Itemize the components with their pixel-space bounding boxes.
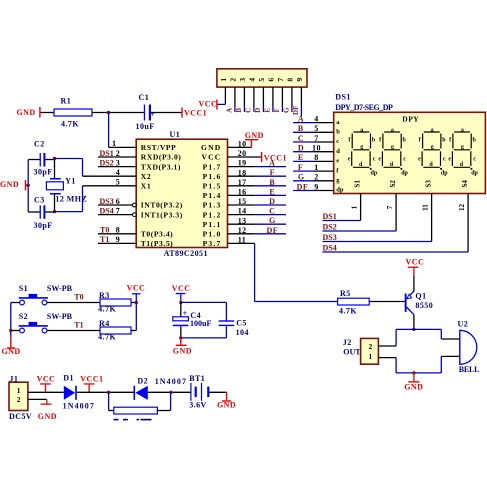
svg-text:T1: T1 (74, 321, 83, 330)
svg-text:5: 5 (257, 78, 266, 82)
node B / display pin 5 (293, 131, 314, 133)
svg-text:A: A (298, 114, 304, 123)
svg-text:Q1: Q1 (415, 291, 426, 300)
svg-text:C3: C3 (34, 196, 45, 205)
svg-text:+: + (150, 110, 155, 119)
seven-segment digit 4 (448, 127, 478, 176)
pin 1 wire (224, 87, 226, 104)
svg-text:1: 1 (219, 78, 228, 82)
svg-text:SW-PB: SW-PB (47, 312, 73, 321)
svg-text:30pF: 30pF (34, 168, 53, 177)
svg-text:P1.5: P1.5 (203, 182, 222, 191)
wire (J2 pin2) (378, 345, 396, 347)
wire (bell +) (441, 338, 460, 340)
svg-text:RXD(P3.0): RXD(P3.0) (141, 153, 182, 162)
node DS3 wire (323, 241, 432, 243)
junction (9, 329, 12, 332)
svg-text:7: 7 (314, 134, 318, 143)
switch S1 SW-PB (19, 284, 73, 305)
node DS4 wire (323, 251, 469, 253)
svg-text:T0(P3.4): T0(P3.4) (141, 230, 173, 239)
pin 4 wire / node C (253, 87, 255, 106)
svg-text:8: 8 (285, 78, 294, 82)
svg-text:e: e (336, 158, 339, 165)
svg-text:P1.2: P1.2 (203, 210, 222, 219)
svg-text:P1.6: P1.6 (203, 172, 222, 181)
junction (412, 371, 415, 374)
seven-segment digit 1 (348, 127, 378, 176)
svg-text:8550: 8550 (415, 301, 433, 310)
svg-text:Y1: Y1 (65, 177, 76, 186)
svg-text:E: E (298, 153, 304, 162)
svg-text:D1: D1 (63, 373, 74, 382)
wire to R5 (254, 243, 256, 301)
connector (9-pin header) body (217, 69, 307, 87)
svg-text:DPY: DPY (402, 114, 419, 123)
wire (10, 303, 12, 338)
diode D2 1N4007 (134, 386, 136, 400)
resistor (charge limit, parallel with D2) (108, 392, 110, 410)
svg-text:12: 12 (458, 204, 466, 212)
junction (169, 391, 172, 394)
capacitor C4 (electrolytic) (180, 302, 182, 316)
svg-text:X2: X2 (141, 172, 151, 181)
pin 9 wire / node DF (300, 87, 302, 106)
svg-text:A: A (269, 159, 275, 168)
node B (U1 P1.5) (228, 185, 256, 187)
svg-text:4.7K: 4.7K (98, 333, 116, 342)
node F (U1 P1.6) (228, 175, 256, 177)
pin 8 wire / node G (291, 87, 293, 106)
power port GND (bell) (413, 373, 415, 381)
svg-text:DS3: DS3 (100, 197, 114, 206)
svg-text:4: 4 (116, 168, 120, 177)
svg-text:10uF: 10uF (136, 122, 155, 131)
svg-text:F: F (298, 163, 303, 172)
svg-text:10: 10 (312, 144, 321, 153)
bell U2 (458, 320, 480, 374)
svg-text:DF: DF (267, 226, 279, 235)
junction (53, 210, 56, 213)
power port VCC (connector) (216, 100, 217, 110)
svg-text:VCC: VCC (199, 100, 218, 109)
svg-text:C: C (298, 134, 304, 143)
wire (395, 329, 397, 346)
capacitor C2 (28, 159, 40, 161)
svg-text:D: D (254, 108, 262, 113)
svg-text:c: c (473, 156, 476, 162)
wire (148, 391, 191, 393)
svg-text:c: c (336, 138, 339, 145)
svg-text:C5: C5 (236, 318, 247, 327)
svg-text:S4: S4 (461, 180, 469, 188)
junction (107, 391, 110, 394)
svg-text:R3: R3 (99, 291, 110, 300)
svg-text:DPY_D7-SEG_DP: DPY_D7-SEG_DP (335, 103, 393, 112)
pin 5 wire / node D (262, 87, 264, 106)
node C (U1 P1.2) (228, 214, 256, 216)
svg-text:2: 2 (314, 173, 318, 182)
svg-text:1: 1 (314, 163, 318, 172)
svg-text:C: C (245, 108, 253, 113)
svg-text:C: C (269, 207, 275, 216)
svg-text:VCC1: VCC1 (184, 109, 207, 118)
wire (369, 301, 405, 303)
svg-text:c: c (443, 156, 446, 162)
wire (92, 112, 144, 114)
svg-text:4: 4 (314, 114, 318, 123)
wire (11, 302, 20, 304)
wire (396, 372, 441, 374)
svg-text:5: 5 (116, 178, 120, 187)
junction (27, 184, 30, 187)
wire (395, 358, 397, 373)
svg-text:104: 104 (236, 328, 249, 337)
svg-text:1: 1 (17, 386, 21, 395)
pin 20 wire + power port VCC1 (228, 156, 262, 158)
svg-text:VCC: VCC (127, 284, 146, 293)
svg-text:T0: T0 (100, 226, 109, 235)
svg-text:A: A (226, 108, 234, 113)
svg-text:d: d (336, 148, 340, 155)
svg-text:a: a (391, 127, 394, 133)
svg-text:C2: C2 (34, 140, 45, 149)
node T0 wire (47, 302, 100, 304)
svg-text:dp: dp (471, 171, 478, 177)
svg-text:100uF: 100uF (190, 319, 211, 328)
svg-text:P1.3: P1.3 (203, 201, 222, 210)
svg-text:T0: T0 (74, 293, 83, 302)
node DS2 / pin 3 (98, 166, 136, 168)
svg-text:2: 2 (368, 342, 372, 351)
svg-text:4.7K: 4.7K (98, 305, 116, 314)
junction (179, 336, 182, 339)
node T1 wire (47, 330, 100, 332)
svg-text:DS1: DS1 (323, 212, 337, 221)
value label (clipped) (114, 419, 119, 421)
wire (181, 337, 227, 339)
svg-text:INT1(P3.3): INT1(P3.3) (141, 210, 183, 219)
node D (U1 P1.3) (228, 204, 256, 206)
svg-text:dp: dp (336, 187, 344, 194)
svg-text:2: 2 (17, 395, 21, 404)
svg-text:R4: R4 (99, 319, 110, 328)
svg-text:4.7K: 4.7K (61, 120, 79, 129)
svg-text:G: G (283, 107, 291, 113)
node DS2 wire (323, 230, 397, 232)
wire (396, 328, 441, 330)
node E / display pin 8 (293, 160, 314, 162)
node T0 / pin 8 (98, 233, 136, 235)
svg-text:P1.0: P1.0 (203, 230, 222, 239)
pin 2 wire / node A (234, 87, 236, 106)
svg-text:4.7K: 4.7K (339, 306, 357, 315)
resistor R4 (100, 327, 131, 334)
wire (bell -) (441, 355, 460, 357)
svg-text:P1.7: P1.7 (203, 162, 222, 171)
svg-text:F: F (273, 108, 281, 112)
resistor R3 (100, 299, 131, 306)
svg-text:P1.1: P1.1 (203, 220, 222, 229)
svg-text:P3.7: P3.7 (203, 239, 222, 248)
node DS1 / pin 2 (98, 156, 136, 158)
svg-text:+: + (183, 309, 188, 318)
svg-text:B: B (269, 178, 275, 187)
svg-text:B: B (298, 124, 304, 133)
svg-text:S3: S3 (424, 180, 432, 188)
svg-text:DS1: DS1 (100, 149, 114, 158)
svg-text:VCC1: VCC1 (80, 375, 103, 384)
node E (U1 P1.4) (228, 194, 256, 196)
svg-text:3: 3 (238, 78, 247, 82)
svg-text:dp: dp (401, 171, 408, 177)
junction (53, 157, 56, 160)
svg-text:T1: T1 (100, 235, 109, 244)
svg-text:GND: GND (404, 383, 423, 392)
svg-text:R5: R5 (340, 289, 351, 298)
svg-text:9: 9 (295, 78, 304, 82)
node C / display pin 7 (293, 141, 314, 143)
svg-text:8: 8 (116, 226, 120, 235)
svg-text:BT1: BT1 (189, 374, 205, 383)
op-amp U1 AT89C2051 body (136, 139, 227, 247)
wire (11, 330, 20, 332)
power port GND (input) (46, 399, 48, 403)
wire (131, 330, 136, 332)
wire (41, 112, 54, 114)
node DF (U1 P1.0) (228, 233, 256, 235)
junction (135, 301, 138, 304)
svg-text:DS4: DS4 (323, 244, 337, 253)
svg-text:b: b (336, 129, 340, 136)
svg-text:U1: U1 (170, 130, 181, 139)
svg-text:DS1: DS1 (335, 93, 351, 102)
svg-text:VCC: VCC (201, 153, 221, 162)
svg-text:GND: GND (2, 347, 21, 356)
node F / display pin 1 (293, 170, 314, 172)
svg-text:R1: R1 (61, 97, 72, 106)
wire (J2 pin1) (378, 357, 396, 359)
wire (J1 pin2) (28, 398, 47, 400)
svg-text:GND: GND (245, 131, 264, 140)
node A (U1 P1.7) (228, 166, 256, 168)
pin 4 X2 (83, 175, 137, 177)
svg-text:2: 2 (228, 78, 237, 82)
svg-text:GND: GND (217, 401, 236, 410)
svg-text:1: 1 (350, 205, 358, 209)
svg-text:dp: dp (371, 171, 378, 177)
svg-text:7: 7 (116, 206, 120, 215)
svg-text:g: g (360, 145, 363, 151)
svg-text:DS2: DS2 (100, 158, 114, 167)
svg-text:6: 6 (116, 197, 120, 206)
svg-text:a: a (360, 127, 363, 133)
transistor Q1 8550 (405, 276, 434, 329)
svg-text:c: c (373, 156, 376, 162)
pin 3 wire / node B (243, 87, 245, 106)
resistor R1 (54, 109, 92, 116)
svg-text:4: 4 (247, 78, 256, 82)
wire (440, 356, 442, 373)
svg-text:9: 9 (314, 182, 318, 191)
node DS4 / pin 7 INT1 (98, 214, 132, 216)
wire (131, 302, 136, 304)
svg-text:9: 9 (116, 235, 120, 244)
crystal Y1 (54, 159, 56, 179)
svg-text:E: E (269, 187, 275, 196)
svg-text:J2: J2 (343, 338, 352, 347)
power port VCC1 (reset) (181, 108, 182, 118)
svg-text:g: g (391, 145, 394, 151)
svg-text:1N4007: 1N4007 (63, 402, 95, 411)
seven-segment digit 2 (378, 127, 408, 176)
capacitor C3 (28, 211, 40, 213)
wire (440, 329, 442, 339)
seven-segment digit 3 (418, 127, 448, 176)
svg-text:D: D (269, 197, 275, 206)
svg-text:P1.4: P1.4 (203, 191, 222, 200)
svg-text:VCC: VCC (37, 375, 56, 384)
svg-text:1: 1 (368, 352, 372, 361)
svg-text:e: e (448, 156, 451, 162)
svg-text:TXD(P3.1): TXD(P3.1) (141, 162, 181, 171)
svg-text:1N4007: 1N4007 (155, 377, 187, 386)
pin 1 wire (RST) (109, 146, 137, 148)
svg-text:INT0(P3.2): INT0(P3.2) (141, 201, 183, 210)
svg-text:a: a (431, 127, 434, 133)
node DS3 / pin 6 INT0 (98, 204, 132, 206)
wire (55, 211, 83, 213)
svg-text:5: 5 (314, 124, 318, 133)
svg-text:GND: GND (17, 108, 36, 117)
svg-text:VCC: VCC (406, 258, 425, 267)
svg-text:X1: X1 (141, 182, 151, 191)
svg-text:7: 7 (386, 205, 394, 209)
svg-text:B: B (235, 108, 243, 113)
node G (U1 P1.1) (228, 223, 256, 225)
svg-text:DS2: DS2 (323, 223, 337, 232)
node A / display pin 4 (293, 122, 314, 124)
svg-text:S2: S2 (19, 312, 28, 321)
svg-text:e: e (348, 156, 351, 162)
capacitor C1 (144, 105, 145, 121)
wire (108, 113, 110, 148)
power port GND (battery) (226, 392, 228, 400)
node D / display pin 10 (293, 151, 314, 153)
svg-text:11: 11 (421, 204, 429, 211)
pin 11 wire P3.7 (228, 242, 255, 244)
svg-text:g: g (461, 145, 464, 151)
svg-text:e: e (378, 156, 381, 162)
svg-text:8: 8 (314, 153, 318, 162)
svg-text:2: 2 (116, 149, 120, 158)
junction (412, 328, 415, 331)
svg-text:S1: S1 (19, 284, 28, 293)
wire (27, 160, 29, 213)
svg-text:DS3: DS3 (323, 233, 337, 242)
junction (107, 111, 110, 114)
wire (209, 391, 226, 393)
wire (J1 pin1) (28, 391, 64, 393)
svg-text:G: G (298, 173, 305, 182)
resistor R5 (338, 298, 370, 305)
svg-text:g: g (431, 145, 434, 151)
wire (181, 301, 227, 303)
svg-text:F: F (270, 168, 275, 177)
svg-text:DF: DF (297, 182, 309, 191)
svg-text:AT89C2051: AT89C2051 (164, 249, 208, 258)
svg-text:30pF: 30pF (34, 221, 53, 230)
svg-text:GND: GND (173, 347, 192, 356)
pin 7 wire / node F (281, 87, 283, 106)
svg-text:6: 6 (266, 78, 275, 82)
power port GND (decoupling) (180, 338, 182, 345)
svg-text:DS4: DS4 (100, 206, 114, 215)
svg-text:c: c (403, 156, 406, 162)
svg-text:e: e (418, 156, 421, 162)
svg-text:S1: S1 (353, 180, 361, 188)
svg-text:dp: dp (441, 171, 448, 177)
svg-text:GND: GND (201, 143, 221, 152)
diode D1 1N4007 (64, 386, 75, 400)
svg-text:3.6V: 3.6V (189, 401, 207, 410)
svg-text:C1: C1 (139, 93, 150, 102)
svg-text:BELL: BELL (459, 365, 480, 374)
svg-text:OUT: OUT (343, 348, 361, 357)
svg-text:1: 1 (112, 139, 116, 148)
wire (135, 303, 137, 331)
junction (179, 301, 182, 304)
wire (55, 158, 83, 160)
power port GND (switches) (10, 337, 11, 347)
display DS1 body (334, 112, 486, 193)
svg-text:G: G (269, 216, 276, 225)
pin 10 wire + power port GND (228, 146, 252, 148)
svg-text:3: 3 (116, 158, 120, 167)
switch S2 SW-PB (19, 312, 73, 333)
svg-text:a: a (461, 127, 464, 133)
svg-text:VCC: VCC (172, 284, 191, 293)
svg-text:T1(P3.5): T1(P3.5) (141, 239, 173, 248)
pin 6 wire / node E (272, 87, 274, 106)
wire (77, 391, 134, 393)
svg-text:DC5V: DC5V (9, 412, 32, 421)
svg-text:7: 7 (276, 78, 285, 82)
svg-text:GND: GND (38, 412, 57, 421)
node G / display pin 2 (293, 180, 314, 182)
wire (255, 301, 338, 303)
svg-text:D: D (298, 144, 304, 153)
svg-text:GND: GND (0, 180, 19, 189)
pin 5 X1 (83, 185, 137, 187)
wire (151, 112, 182, 114)
svg-text:D2: D2 (137, 376, 148, 385)
svg-text:E: E (264, 108, 272, 113)
svg-text:RST/VPP: RST/VPP (141, 143, 177, 152)
node DS1 wire (323, 220, 361, 222)
svg-text:SW-PB: SW-PB (47, 284, 73, 293)
svg-text:U2: U2 (458, 320, 469, 329)
node DF / display pin 9 (293, 190, 314, 192)
svg-text:S2: S2 (389, 180, 397, 188)
node T1 / pin 9 (98, 242, 136, 244)
capacitor C5 (219, 320, 235, 321)
